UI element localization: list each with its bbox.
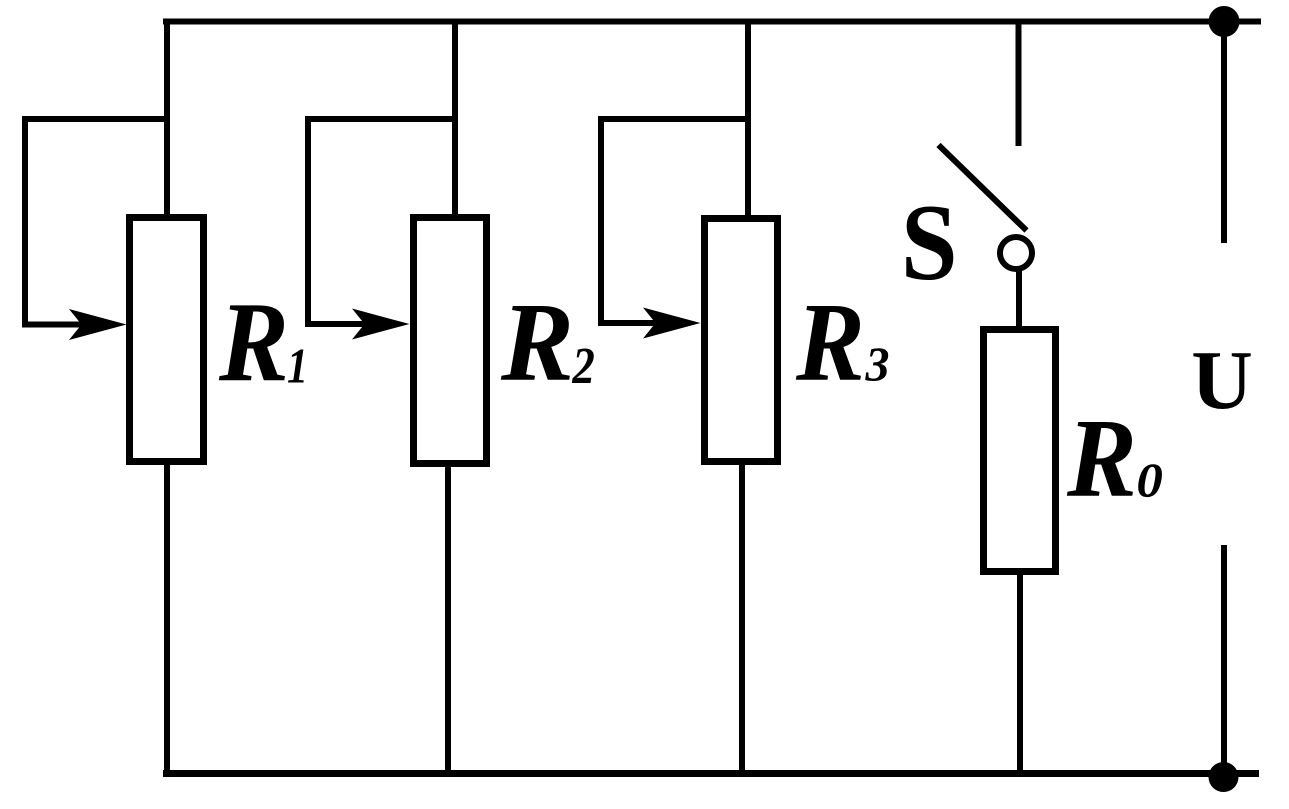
wire: R1 bottom terminal to bottom bus	[164, 461, 170, 773]
resistor R0	[984, 330, 1056, 572]
svg-text:U: U	[1191, 335, 1253, 427]
wire: top bus to R1 top terminal	[164, 19, 170, 219]
wire: top bus	[163, 19, 1261, 25]
wire: top bus to switch	[1016, 19, 1022, 147]
wiper arrow of R1	[69, 309, 127, 340]
wire: R1 wiper loop	[25, 119, 167, 325]
wire: R3 bottom terminal to bottom bus	[739, 461, 745, 773]
wire: right branch lower segment	[1221, 545, 1227, 777]
resistor R3 (rheostat body)	[705, 219, 778, 462]
svg-text:R: R	[795, 281, 865, 405]
svg-text:3: 3	[865, 338, 890, 392]
svg-text:2: 2	[571, 338, 594, 394]
resistor R1 (rheostat body)	[130, 218, 204, 462]
wire: bottom bus	[163, 770, 1259, 777]
resistor R2 (rheostat body)	[414, 218, 487, 464]
wire: R3 wiper loop	[601, 119, 748, 323]
wire: R2 bottom terminal to bottom bus	[445, 463, 451, 773]
svg-text:0: 0	[1136, 454, 1162, 508]
svg-text:S: S	[901, 182, 958, 303]
wiper arrow of R2	[352, 309, 410, 340]
svg-text:R: R	[1066, 396, 1137, 520]
wire: right branch upper segment	[1221, 22, 1227, 244]
wire: switch to R0	[1016, 269, 1022, 330]
wire: R0 bottom terminal to bottom bus	[1017, 571, 1023, 773]
svg-text:1: 1	[287, 338, 308, 393]
wiper arrow of R3	[643, 308, 701, 339]
wire: top bus to R3 top terminal	[745, 19, 751, 220]
svg-text:R: R	[218, 278, 289, 405]
wire: R2 wiper loop	[308, 119, 455, 324]
svg-text:R: R	[500, 279, 574, 404]
switch S contact circle	[1000, 237, 1032, 269]
wire: top bus to R2 top terminal	[452, 19, 458, 219]
node: bottom-right junction dot	[1209, 762, 1239, 792]
node: top-right junction dot	[1209, 6, 1240, 37]
switch S blade (open)	[939, 145, 1027, 231]
